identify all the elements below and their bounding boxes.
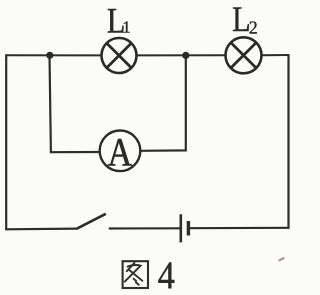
caption: 图 character (drawn) bbox=[123, 261, 148, 288]
wire: switch contact to battery bbox=[109, 227, 181, 229]
wire: right vertical bbox=[287, 54, 289, 229]
label L2 bbox=[232, 0, 258, 40]
wire: between L1 and L2 bbox=[137, 54, 226, 56]
wire: ammeter branch right vertical bbox=[140, 55, 185, 150]
switch S lever bbox=[77, 214, 106, 229]
svg-text:1: 1 bbox=[122, 18, 131, 37]
svg-text:L: L bbox=[232, 0, 250, 40]
wire: bottom-left to switch bbox=[5, 228, 77, 231]
lamp L1 bbox=[102, 38, 137, 73]
wire: battery to bottom-right corner bbox=[188, 227, 289, 230]
svg-text:A: A bbox=[108, 131, 133, 175]
red speck (scan artifact) bbox=[280, 258, 284, 260]
svg-text:2: 2 bbox=[249, 18, 258, 38]
svg-text:4: 4 bbox=[158, 253, 175, 295]
wire: ammeter branch left vertical bbox=[50, 55, 100, 152]
junction node dot right bbox=[182, 52, 189, 59]
label L1 bbox=[107, 1, 131, 41]
lamp L2 bbox=[226, 37, 262, 73]
battery short plate bbox=[187, 221, 190, 236]
junction node dot left bbox=[46, 52, 53, 59]
wire: L2 to top-right corner bbox=[261, 54, 288, 56]
ammeter A bbox=[100, 131, 141, 176]
battery long plate bbox=[180, 214, 183, 242]
wire: left vertical bbox=[5, 54, 7, 230]
wire: top-left horizontal bbox=[6, 54, 101, 56]
